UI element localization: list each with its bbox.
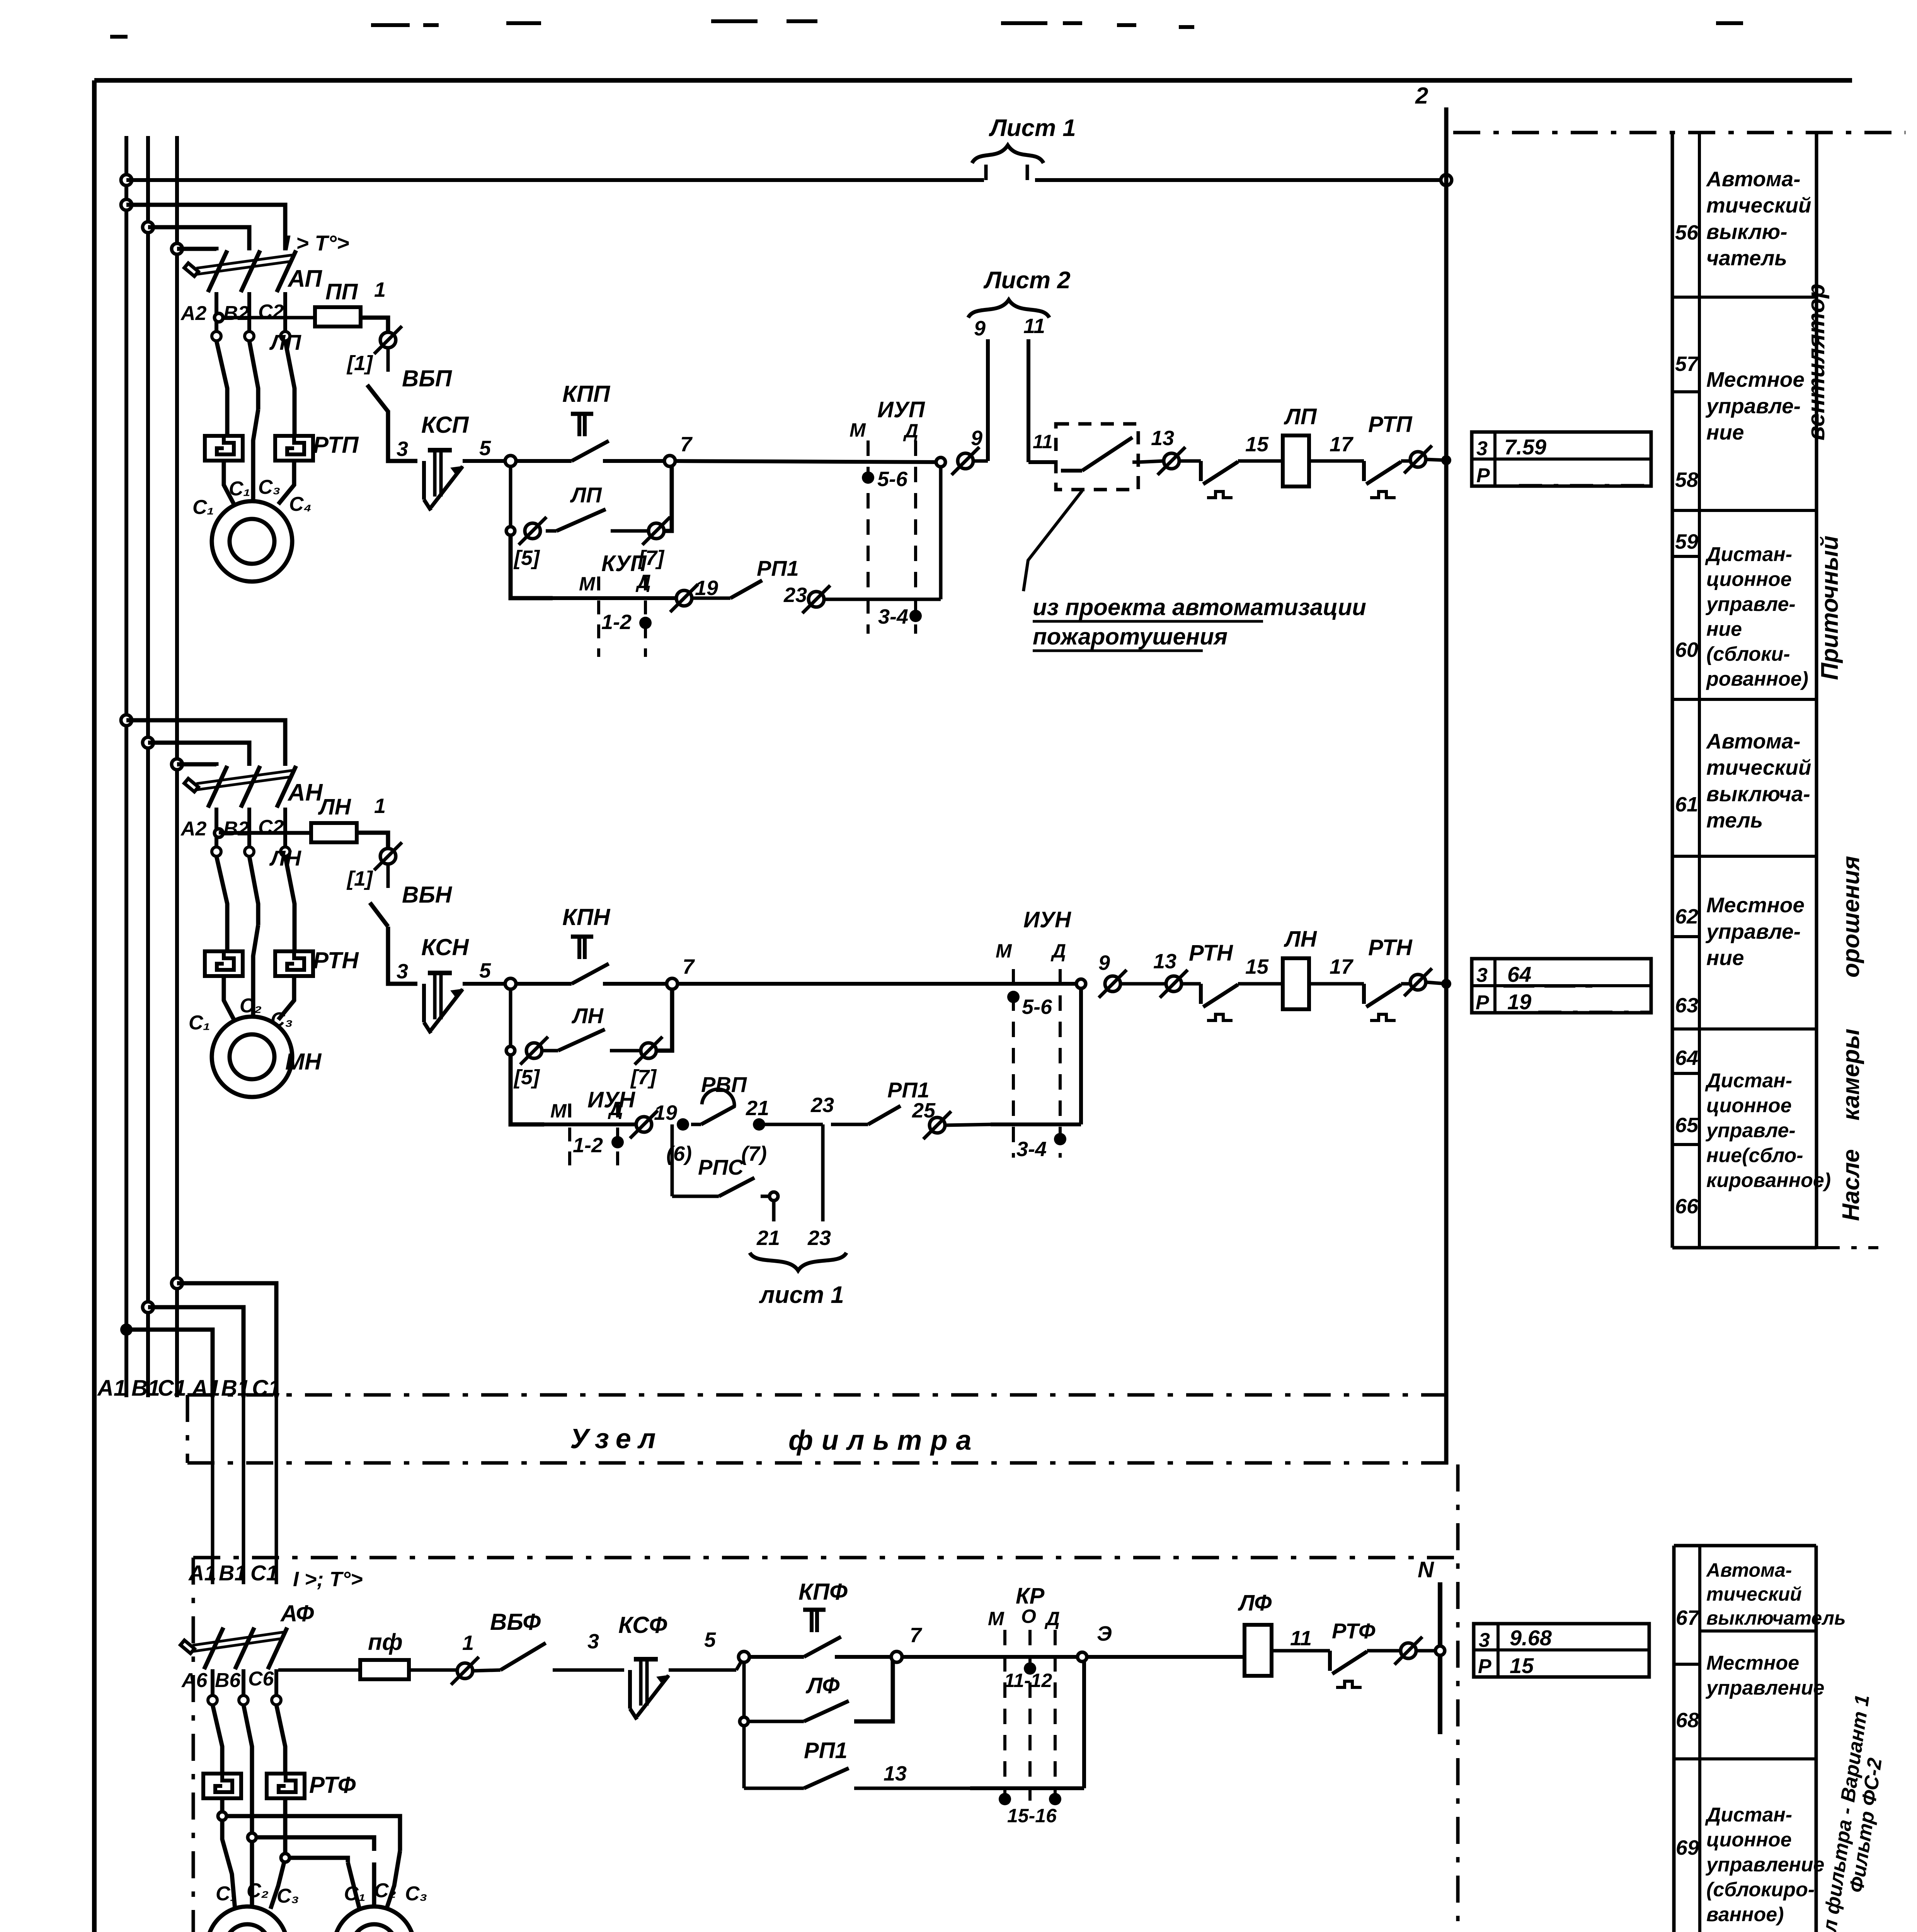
svg-text:17: 17: [1330, 433, 1354, 456]
svg-text:из проекта автоматизации: из проекта автоматизации: [1033, 594, 1366, 620]
rail2 KSN to node5: [463, 982, 511, 986]
key switch KSP: [424, 450, 463, 510]
wire bus C to AP pole1: [177, 249, 216, 250]
svg-text:управле-: управле-: [1705, 919, 1801, 943]
svg-text:вентилятор: вентилятор: [1803, 284, 1830, 440]
contact RP1 (N) blade: [831, 1123, 868, 1126]
svg-text:ЛН: ЛН: [571, 1003, 604, 1028]
fire note underline1: [1033, 620, 1263, 623]
svg-text:7: 7: [680, 433, 693, 456]
wire bus B to AN pole2: [148, 743, 249, 766]
wire VBF to KSF: [553, 1668, 624, 1672]
svg-text:АН: АН: [287, 779, 323, 806]
branch wire to motor2 ph1: [220, 1798, 225, 1816]
node 7 (F): [891, 1651, 902, 1662]
svg-text:А1: А1: [191, 1376, 220, 1401]
svg-text:ционное: ционное: [1706, 568, 1792, 590]
heater RTF right: [267, 1774, 305, 1798]
motor M1: [212, 501, 292, 582]
svg-text:В1: В1: [219, 1561, 247, 1585]
IUN lower wire: [991, 1122, 1081, 1126]
RPS end node: [770, 1192, 778, 1201]
svg-text:15: 15: [1510, 1653, 1534, 1678]
IUN dashed pole M (right): [1012, 969, 1015, 1158]
junction node F3: [281, 1854, 289, 1862]
wire X9 to list2 leg: [974, 459, 988, 463]
KUP D dot: [639, 617, 652, 629]
node LF branch repaint: [740, 1717, 748, 1726]
wire bus B to AP pole2: [148, 227, 249, 250]
wire corner up to rail node: [939, 462, 943, 599]
wire blade to X7 (N): [610, 1049, 640, 1053]
wire VBN to rail2: [388, 927, 417, 984]
svg-text:В1: В1: [131, 1376, 160, 1401]
svg-text:С₁: С₁: [189, 1012, 210, 1034]
svg-text:3: 3: [1476, 437, 1488, 460]
svg-text:21: 21: [756, 1226, 780, 1250]
svg-text:КПФ: КПФ: [798, 1579, 848, 1605]
line 2 vertical: [1444, 107, 1449, 1464]
contactor LP blades: [216, 341, 227, 436]
node LP branch repaint: [506, 527, 515, 535]
svg-text:ние: ние: [1706, 618, 1742, 640]
svg-text:С1: С1: [158, 1376, 186, 1401]
coil LF: [1245, 1625, 1272, 1676]
node rail2/IUN junction: [1076, 979, 1086, 988]
svg-text:Р: Р: [1476, 992, 1489, 1014]
pole lead 3: [283, 292, 287, 332]
svg-text:РТП: РТП: [1368, 412, 1413, 437]
svg-text:63: 63: [1675, 994, 1698, 1017]
node rail/IUP junction: [936, 457, 945, 467]
contact RVP blade: [691, 1123, 701, 1126]
node bus A tap AP pole3: [121, 199, 132, 210]
svg-text:С₃: С₃: [277, 1885, 299, 1907]
rtable1 bottom dashdot: [1817, 1246, 1878, 1249]
rtable1 row65 bottom (num col): [1672, 1143, 1699, 1146]
rail1 node7 to IUP: [670, 461, 941, 462]
filter box top: [193, 1556, 1458, 1560]
svg-text:М: М: [850, 419, 866, 441]
svg-text:РТН: РТН: [1368, 935, 1413, 960]
rail1 node5 to KPP: [511, 459, 572, 463]
svg-text:ЛП: ЛП: [1284, 404, 1317, 429]
svg-text:В2: В2: [223, 302, 249, 325]
rail1 segment KSP to node5: [463, 459, 511, 463]
circuit breaker AP: [184, 250, 296, 292]
wire X13 to RTN contact: [1182, 982, 1201, 986]
svg-text:РТФ: РТФ: [309, 1772, 356, 1798]
node 5: [505, 456, 516, 466]
svg-text:5: 5: [479, 959, 491, 982]
svg-text:пожаротушения: пожаротушения: [1033, 624, 1227, 650]
branch LN lower node: [506, 1046, 515, 1055]
node 9 (F) repaint: [1078, 1652, 1087, 1662]
KUP dashed pole M: [597, 577, 600, 657]
rtable1 row57 bottom (num col): [1672, 390, 1699, 393]
rtable1 row62 bottom (num col): [1672, 935, 1699, 938]
rail1 KPP to node7: [603, 459, 670, 463]
svg-text:62: 62: [1675, 905, 1698, 928]
svg-text:61: 61: [1675, 793, 1698, 816]
svg-text:66: 66: [1675, 1195, 1699, 1218]
push button KPF: [803, 1610, 841, 1657]
svg-text:64: 64: [1507, 962, 1531, 986]
svg-text:9: 9: [971, 427, 982, 450]
node bus C tap AN pole1: [172, 759, 182, 770]
svg-text:ционное: ционное: [1706, 1095, 1792, 1117]
svg-text:С₂: С₂: [374, 1879, 396, 1902]
wire bus A to AN pole3: [126, 720, 285, 766]
bus B vertical: [146, 136, 150, 1397]
svg-text:11: 11: [1290, 1627, 1312, 1650]
junction node F1: [218, 1812, 226, 1820]
branch LF node: [740, 1717, 748, 1726]
KR dashed pole D: [1054, 1630, 1057, 1801]
rtable1 row59 bottom (num col): [1672, 555, 1699, 558]
svg-text:(сблокиро-: (сблокиро-: [1706, 1879, 1815, 1901]
terminal X 25: [923, 1111, 951, 1139]
branch RP1: down: [742, 1721, 746, 1788]
svg-text:С₄: С₄: [289, 493, 312, 515]
svg-text:С₂: С₂: [240, 995, 262, 1017]
svg-text:19: 19: [695, 577, 718, 600]
svg-text:58: 58: [1675, 468, 1698, 492]
heater RTP left: [205, 436, 243, 461]
svg-text:РП1: РП1: [804, 1738, 848, 1763]
svg-text:В1: В1: [221, 1376, 250, 1401]
svg-text:13: 13: [1153, 950, 1176, 973]
motor F2: [334, 1906, 414, 1932]
rail3 node7 to KR: [897, 1655, 970, 1659]
svg-text:Д: Д: [635, 571, 651, 592]
svg-text:ЛН: ЛН: [1284, 927, 1317, 952]
svg-text:[5]: [5]: [513, 1066, 540, 1089]
List2 curly bracket: [968, 300, 1049, 318]
IUP dashed pole M: [867, 440, 870, 634]
IUP dashed pole D: [914, 440, 917, 634]
pole lead 1: [215, 292, 218, 332]
rtable3 top: [1674, 1544, 1816, 1548]
svg-text:(сблоки-: (сблоки-: [1706, 643, 1790, 665]
svg-text:выключатель: выключатель: [1706, 1607, 1846, 1629]
terminal X [5] (N): [520, 1037, 548, 1065]
svg-text:ИУП: ИУП: [877, 397, 925, 422]
svg-text:Узел: Узел: [570, 1423, 663, 1454]
wire LF to node7 riser: [854, 1657, 893, 1721]
svg-text:М: М: [988, 1608, 1004, 1629]
node 5 (F) repaint: [739, 1651, 749, 1662]
node LN branch repaint: [506, 1046, 515, 1055]
node 9 (F): [1078, 1652, 1087, 1662]
svg-text:I >; T°>: I >; T°>: [293, 1568, 363, 1591]
svg-text:кированное): кированное): [1706, 1169, 1831, 1192]
terminal X [7]: [642, 517, 670, 545]
KUN dashed pole M: [568, 1104, 571, 1175]
svg-text:[1]: [1]: [346, 867, 373, 890]
KR dot 16: [1049, 1793, 1061, 1805]
svg-text:11: 11: [1023, 315, 1045, 338]
contact RP1 blade: [693, 597, 730, 600]
coil LN: [1283, 958, 1309, 1009]
svg-text:5-6: 5-6: [1022, 995, 1052, 1019]
terminal X 23: [802, 585, 830, 613]
svg-text:69: 69: [1676, 1836, 1699, 1859]
svg-text:5-6: 5-6: [877, 468, 908, 491]
svg-text:13: 13: [884, 1762, 907, 1785]
svg-text:РПС: РПС: [698, 1155, 744, 1179]
KUN D dot: [611, 1136, 624, 1148]
node rail/IUP repaint: [936, 457, 945, 467]
svg-text:С₁: С₁: [192, 496, 214, 519]
svg-text:В6: В6: [215, 1669, 241, 1692]
svg-text:тический: тический: [1706, 1583, 1802, 1605]
svg-text:ЛП: ЛП: [269, 330, 301, 354]
wire coil LF right: [1272, 1649, 1330, 1653]
thermal contact RTF: [1330, 1651, 1367, 1687]
node bus A tap AN pole3: [121, 715, 132, 726]
branch wire to motor2 ph2: [250, 1816, 254, 1837]
drop 21 vertical: [772, 1196, 776, 1221]
svg-text:19: 19: [1507, 990, 1531, 1014]
fuse LN: [311, 823, 357, 842]
svg-text:11-12: 11-12: [1004, 1670, 1052, 1691]
svg-text:ЛН: ЛН: [318, 794, 351, 820]
svg-text:управле-: управле-: [1705, 1119, 1796, 1142]
List2 leg 11 vertical: [1027, 339, 1030, 462]
contact RP1 (F) blade: [804, 1768, 849, 1788]
svg-text:А2: А2: [180, 818, 207, 840]
svg-text:Дистан-: Дистан-: [1705, 543, 1792, 566]
thermal contact RTN-2: [1364, 984, 1401, 1020]
wire firebox to X13: [1138, 461, 1163, 462]
svg-text:68: 68: [1676, 1709, 1699, 1732]
heater RTF left: [203, 1774, 241, 1798]
node fuse feed (N): [215, 829, 223, 837]
filter band top: [187, 1393, 1448, 1397]
branch wire to motor2 ph3: [283, 1798, 288, 1858]
svg-text:ВБН: ВБН: [402, 882, 453, 908]
svg-text:С₃: С₃: [405, 1883, 427, 1905]
circuit breaker AN: [184, 766, 296, 808]
wire heaterR to motor M1: [278, 461, 294, 504]
line N vertical: [1438, 1582, 1442, 1734]
svg-text:Д: Д: [1044, 1608, 1060, 1629]
refbox1 tail dashdot: [1519, 484, 1650, 487]
filter band left: [186, 1395, 189, 1463]
svg-text:Р: Р: [1476, 464, 1490, 487]
rail3 jog: [736, 1657, 744, 1670]
svg-text:23: 23: [783, 583, 807, 607]
svg-text:КСН: КСН: [421, 934, 469, 960]
svg-text:13: 13: [1151, 427, 1174, 450]
RPS end wire: [761, 1195, 771, 1198]
aux contact LP blade: [546, 529, 557, 533]
svg-text:ние(сбло-: ние(сбло-: [1706, 1145, 1803, 1167]
svg-text:С1: С1: [252, 1376, 281, 1401]
IUN dashed pole D (right): [1059, 969, 1062, 1158]
rtable1 row58 bottom: [1672, 509, 1817, 512]
node rail2/IUN repaint: [1076, 979, 1086, 988]
svg-text:3: 3: [587, 1630, 599, 1653]
svg-text:камеры: камеры: [1838, 1029, 1864, 1121]
wire X to VBP: [386, 349, 390, 372]
aux contact LF blade: [748, 1720, 804, 1723]
node bus C tap AP pole1: [172, 243, 182, 254]
terminal X 13: [1158, 447, 1185, 475]
refbox1 frame: [1472, 432, 1651, 486]
contact RPS blade: [719, 1178, 754, 1196]
svg-text:РТП: РТП: [313, 432, 359, 458]
svg-text:15: 15: [1245, 433, 1269, 456]
wire RTN1 to coil LN: [1238, 982, 1283, 986]
svg-text:I > T°>: I > T°>: [284, 231, 349, 255]
svg-text:ВБФ: ВБФ: [490, 1609, 541, 1635]
RPS row wire: [672, 1195, 719, 1198]
svg-text:тический: тический: [1706, 193, 1811, 217]
filter band bottom: [187, 1461, 1448, 1465]
RP1(F) row: [744, 1787, 804, 1790]
rtable3 row68 bottom: [1674, 1757, 1816, 1760]
rtable1 bottom line: [1672, 1246, 1817, 1250]
feeder C through band: [275, 1397, 278, 1584]
List1 drop wire left: [984, 165, 988, 180]
svg-text:рованное): рованное): [1706, 668, 1808, 690]
svg-text:7: 7: [683, 955, 695, 978]
AF pole leads: [211, 1669, 215, 1696]
node N junction: [1435, 1646, 1445, 1655]
wire heaterL to motor M1: [224, 461, 235, 506]
heater RTN left: [205, 951, 243, 976]
bus C vertical: [175, 136, 179, 1397]
branch LN: node5 down: [509, 984, 512, 1051]
list1 bottom curly: [750, 1253, 846, 1270]
RPS branch vertical: [671, 1124, 674, 1196]
KUP dashed pole D: [644, 577, 647, 657]
page top scan artifacts: [110, 21, 1743, 37]
aux contact LN blade: [543, 1049, 558, 1053]
svg-text:С2: С2: [258, 816, 284, 838]
svg-text:тический: тический: [1706, 755, 1811, 779]
svg-text:23: 23: [807, 1226, 831, 1250]
wire RTP1 to coil LP: [1238, 459, 1283, 463]
fire switch blade: [1061, 469, 1082, 473]
AN pole contact circles: [212, 847, 221, 856]
svg-text:АП: АП: [287, 265, 322, 292]
IUN dot 3-4: [1054, 1133, 1066, 1145]
svg-text:ванное): ванное): [1706, 1903, 1784, 1926]
svg-text:5: 5: [479, 437, 491, 460]
rtable3 row67 bottom (num col): [1674, 1663, 1700, 1666]
svg-text:9: 9: [1098, 951, 1110, 975]
wire VBP to rail: [388, 410, 417, 461]
svg-text:59: 59: [1675, 530, 1698, 553]
svg-text:тель: тель: [1706, 808, 1763, 832]
IUP dot 3-4: [909, 610, 922, 622]
node fuse feed: [215, 313, 223, 322]
pole lead 2: [247, 292, 251, 332]
wire X25 to IUN box: [946, 1124, 991, 1125]
svg-text:пф: пф: [368, 1629, 403, 1655]
refbox2 underline 64: [1503, 985, 1592, 988]
terminal X 9 (N): [1099, 970, 1127, 998]
circuit breaker AF: [180, 1628, 287, 1669]
wire X to line2 (N): [1427, 982, 1446, 984]
refbox3 top dashes: [1538, 1623, 1649, 1624]
leader line fire note: [1023, 491, 1082, 591]
node 5 (N): [505, 978, 516, 989]
svg-text:9.68: 9.68: [1510, 1626, 1552, 1650]
key switch KSF: [630, 1659, 669, 1719]
heater RTP right: [275, 436, 313, 461]
svg-text:64: 64: [1675, 1046, 1698, 1070]
svg-text:ЛФ: ЛФ: [1238, 1590, 1272, 1616]
svg-text:фильтра: фильтра: [788, 1425, 980, 1456]
node bus B tap filter: [143, 1302, 153, 1313]
terminal X 19 (N): [630, 1111, 658, 1138]
svg-text:Автома-: Автома-: [1706, 729, 1801, 753]
svg-text:(7): (7): [741, 1142, 767, 1165]
wire RTN2 to X (N): [1401, 982, 1410, 986]
svg-text:А6: А6: [181, 1669, 208, 1692]
svg-text:управление: управление: [1705, 1854, 1824, 1876]
svg-text:А1: А1: [188, 1561, 216, 1585]
node 7: [664, 456, 675, 466]
wire heaterL to motor MN: [224, 976, 235, 1022]
svg-text:3: 3: [1479, 1629, 1490, 1651]
svg-text:Приточный: Приточный: [1817, 536, 1843, 680]
svg-text:С₁: С₁: [344, 1883, 366, 1905]
wire pole A to fuse LN: [219, 832, 311, 835]
svg-text:КСП: КСП: [421, 412, 469, 438]
KR dot 15: [999, 1793, 1011, 1805]
node 7 (N) repaint: [667, 978, 678, 989]
svg-text:РТФ: РТФ: [1332, 1619, 1376, 1643]
rtable1 top dashdot: [1453, 131, 1905, 134]
svg-text:23: 23: [810, 1094, 834, 1117]
svg-text:11: 11: [1033, 431, 1053, 452]
feeder A wire: [126, 1330, 213, 1397]
terminal X [5]: [519, 517, 546, 545]
terminal X end s3: [1394, 1637, 1422, 1665]
node 5 repaint: [505, 456, 516, 466]
thermal contact RTP-1: [1201, 461, 1238, 498]
svg-text:ние: ние: [1706, 420, 1744, 444]
wire blade to X7: [611, 529, 648, 533]
svg-text:управле-: управле-: [1705, 593, 1796, 616]
svg-text:М: М: [996, 940, 1012, 962]
wire fuse PF to X1: [409, 1668, 456, 1672]
rtable1 left: [1671, 133, 1674, 1248]
svg-text:С₂: С₂: [247, 1879, 269, 1902]
frame left border: [92, 80, 97, 1932]
svg-text:Д: Д: [903, 420, 918, 442]
fire note underline2: [1033, 650, 1203, 652]
filter box left: [192, 1558, 195, 1932]
junction node F2: [248, 1833, 256, 1842]
rail3 KSF to node5: [669, 1668, 736, 1672]
branch LP lower node: [506, 527, 515, 535]
fire-automation dashed box: [1056, 424, 1138, 490]
refbox2 tail dashdot: [1538, 1011, 1650, 1014]
filter box right: [1456, 1464, 1460, 1932]
rail2 node7 right: [672, 982, 1081, 986]
rtable1 right: [1815, 133, 1818, 1248]
node bus B tap AP pole2: [143, 222, 153, 233]
svg-text:М: М: [579, 573, 596, 595]
rail1 leg11 to firebox: [1028, 460, 1056, 464]
branch lower: node5 to IUN row: [511, 1051, 544, 1124]
